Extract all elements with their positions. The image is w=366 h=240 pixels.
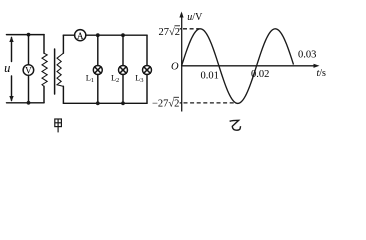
node top junction xyxy=(27,33,31,37)
label 27sqrt2 xyxy=(159,26,181,38)
x-axis t/s xyxy=(182,64,320,68)
ammeter A xyxy=(75,30,86,41)
svg-text:A: A xyxy=(77,31,84,41)
transformer core xyxy=(54,49,56,94)
y-axis u/V xyxy=(179,12,183,112)
transformer T primary coil xyxy=(42,53,47,86)
transformer T primary lead bottom xyxy=(43,86,45,102)
label u/V xyxy=(187,12,203,23)
lamp L2 xyxy=(111,66,128,85)
dashed line -27sqrt2 xyxy=(184,102,235,104)
node bottom junction xyxy=(27,101,31,105)
wire branch L3 lower xyxy=(146,75,148,104)
wire branch L3 upper xyxy=(146,35,148,65)
svg-text:−27√2: −27√2 xyxy=(152,97,179,109)
svg-text:V: V xyxy=(25,65,32,75)
transformer T secondary coil xyxy=(57,53,63,86)
voltmeter V xyxy=(23,65,34,76)
svg-text:u: u xyxy=(4,61,10,75)
label 乙 xyxy=(230,120,241,130)
lamp L3 xyxy=(135,66,151,85)
svg-text:0.02: 0.02 xyxy=(251,69,269,80)
svg-text:0.01: 0.01 xyxy=(201,71,219,82)
wire primary top xyxy=(7,34,45,36)
svg-text:u/V: u/V xyxy=(187,12,203,23)
label -27sqrt2 xyxy=(152,97,179,109)
node L2 top xyxy=(121,33,125,37)
svg-text:O: O xyxy=(171,61,179,72)
svg-text:1: 1 xyxy=(91,77,94,84)
sine curve xyxy=(182,29,294,104)
wire secondary bottom xyxy=(63,102,147,104)
transformer T secondary lead bottom xyxy=(62,86,64,103)
wire branch L1 upper xyxy=(97,35,99,65)
label 甲 xyxy=(55,119,62,132)
svg-text:27√2: 27√2 xyxy=(159,26,181,38)
lamp L1 xyxy=(86,66,103,85)
svg-text:2: 2 xyxy=(116,77,119,84)
svg-text:3: 3 xyxy=(140,77,143,84)
wire secondary top right xyxy=(86,34,147,36)
transformer T secondary lead top xyxy=(62,35,64,53)
dashed line 27sqrt2 xyxy=(183,28,200,30)
svg-text:t/s: t/s xyxy=(317,68,327,79)
wire branch L1 lower xyxy=(97,75,99,104)
transformer T primary lead top xyxy=(43,35,45,54)
node L1 bottom xyxy=(96,101,100,105)
node L1 top xyxy=(96,33,100,37)
node L2 bottom xyxy=(121,101,125,105)
wire primary bottom xyxy=(7,102,45,104)
wire branch L2 lower xyxy=(122,75,124,104)
wire voltmeter branch lower xyxy=(28,75,30,103)
wire voltmeter branch upper xyxy=(28,35,30,65)
AC source u voltage arrows xyxy=(4,37,14,102)
wire branch L2 upper xyxy=(122,35,124,65)
svg-text:0.03: 0.03 xyxy=(298,50,316,61)
wire secondary top left xyxy=(63,34,74,36)
